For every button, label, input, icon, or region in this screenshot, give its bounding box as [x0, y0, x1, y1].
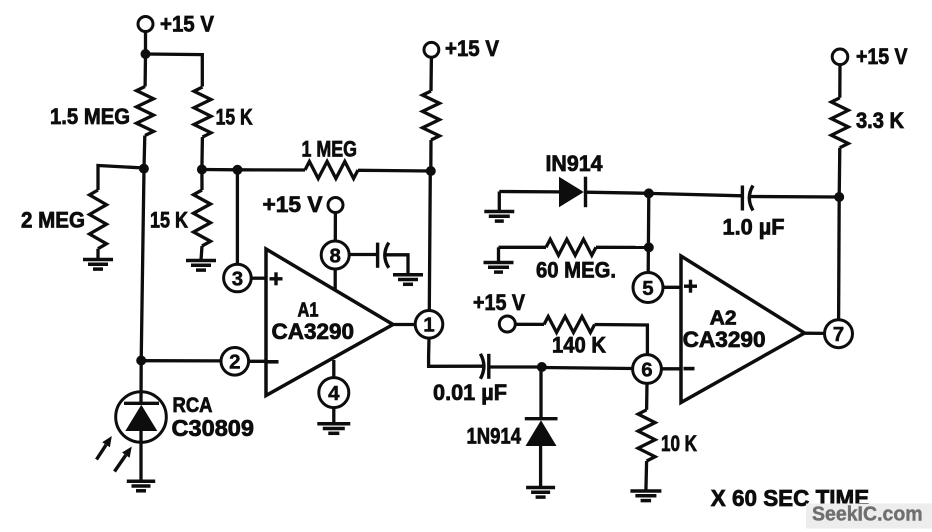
op-amp U1 A1 CA3290 triangle	[266, 249, 393, 396]
wire pin 1 down and right	[429, 338, 484, 366]
node junction 0.01uF/D2/pin6	[537, 362, 547, 372]
resistor R 3.3 K (vertical)	[838, 65, 842, 98]
node junction 1MEG/pull-up/output rail	[426, 166, 436, 176]
wire D1 to junction	[586, 192, 649, 193]
pin 2 circle	[221, 348, 249, 376]
wire cap to D2 junction	[489, 365, 542, 368]
ground at 60 MEG	[484, 261, 514, 265]
resistor R 1.5 MEG (vertical)	[143, 54, 147, 87]
svg-text:C30809: C30809	[172, 415, 255, 441]
ground at D1	[484, 210, 514, 214]
wire pin 3 to A1	[251, 277, 266, 280]
wire +15V terminal to junction	[144, 32, 147, 55]
wire pin 4 to ground	[332, 408, 335, 424]
resistor R 140 K (horizontal)	[515, 323, 544, 326]
resistor R 60 MEG (horizontal)	[499, 246, 547, 249]
svg-text:1.5 MEG: 1.5 MEG	[50, 104, 130, 129]
wire junction to 15K top	[146, 54, 203, 87]
ground below D2	[526, 486, 555, 490]
wire bypass cap to ground	[385, 255, 408, 275]
wire 15K junction to pin3 junction	[202, 168, 238, 172]
op-amp A1 minus input marker	[268, 360, 279, 364]
wire main left rail down	[141, 169, 144, 361]
op-amp A2 minus input marker	[684, 367, 695, 371]
svg-text:5: 5	[642, 277, 653, 300]
svg-text:10 K: 10 K	[661, 431, 697, 456]
resistor R 2 MEG (vertical)	[90, 190, 107, 249]
svg-text:SeekIC.com: SeekIC.com	[812, 504, 923, 526]
wire feedback rail down to pin 5	[647, 193, 651, 272]
svg-text:IN914: IN914	[546, 151, 604, 176]
resistor R 10 K (vertical)	[645, 383, 649, 409]
svg-text:CA3290: CA3290	[272, 319, 355, 344]
svg-text:4: 4	[328, 382, 340, 405]
wire junction down to pin 7	[837, 197, 841, 320]
svg-text:2 MEG: 2 MEG	[21, 208, 85, 233]
svg-text:15 K: 15 K	[216, 105, 253, 130]
node junction D1/feedback rail	[644, 188, 654, 198]
wire pin 5 to A2	[663, 286, 681, 289]
wire A1 apex to pin 1	[393, 323, 415, 326]
node junction 15K/15K	[197, 165, 207, 175]
resistor R 15K upper (vertical)	[194, 87, 211, 137]
resistor unlabeled pull-up (vertical)	[429, 57, 433, 91]
wire +15V to pin 8	[334, 213, 337, 242]
ground at pin-8 bypass cap	[393, 273, 423, 277]
wire rail down to pin 1	[429, 171, 430, 310]
svg-text:6: 6	[641, 358, 652, 381]
wire A1 lower edge to pin 4	[332, 360, 335, 378]
diode D2 1N914 triangle	[526, 420, 557, 446]
light arrow 2 into photodiode	[115, 455, 126, 471]
ground below lower 15K	[186, 259, 216, 263]
light arrow 1 into photodiode	[97, 445, 107, 460]
svg-text:2: 2	[229, 351, 240, 374]
power terminal +15V (top right)	[832, 49, 848, 65]
svg-text:7: 7	[833, 323, 844, 346]
diode D1 1N914 anode wire and ground	[499, 190, 559, 194]
wire junction to pin 2	[141, 359, 221, 362]
node junction 3.3K/1.0uF/pin7	[834, 192, 844, 202]
wire junction down to photodiode	[139, 361, 142, 404]
svg-text:RCA: RCA	[173, 394, 213, 417]
wire pin 2 to A1	[249, 360, 266, 363]
diode D1 1N914 triangle	[559, 177, 584, 208]
svg-text:15 K: 15 K	[150, 208, 188, 233]
wire A2 apex to pin 7	[805, 332, 825, 335]
wire junction to 1.0uF cap	[649, 193, 742, 195]
capacitor C 1.0 uF	[741, 186, 744, 211]
node junction pin3 branch	[233, 165, 243, 175]
ground below 2 MEG	[83, 258, 113, 262]
power terminal +15V (top left)	[138, 17, 153, 32]
watermark background	[806, 504, 932, 529]
node junction 1.5MEG/2MEG	[139, 164, 149, 174]
wire junction to pin 6	[542, 368, 633, 369]
svg-text:1N914: 1N914	[467, 424, 522, 449]
svg-text:+15 V: +15 V	[856, 44, 908, 69]
photodiode triangle	[125, 405, 157, 431]
wire 2MEG branch	[98, 166, 144, 191]
photodiode cathode bar	[124, 402, 159, 405]
svg-text:+15 V: +15 V	[445, 36, 499, 61]
svg-text:1: 1	[423, 314, 434, 337]
svg-text:140 K: 140 K	[552, 333, 606, 358]
wire down to pin 3	[236, 170, 239, 264]
op-amp U2 A2 CA3290 triangle	[681, 256, 805, 403]
svg-text:+15 V: +15 V	[263, 192, 323, 217]
power terminal +15V (middle)	[424, 42, 439, 57]
wire junction down to D2	[539, 367, 542, 419]
pin 1 circle	[415, 311, 443, 339]
power terminal +15V (140K)	[499, 316, 515, 332]
diode D1 1N914 cathode bar	[584, 177, 587, 208]
pin 3 circle	[224, 264, 252, 292]
svg-text:1 MEG: 1 MEG	[302, 137, 358, 162]
pin 7 circle	[825, 320, 853, 348]
ground below photodiode	[127, 479, 155, 483]
node junction below +15V (top left)	[141, 49, 151, 59]
wire 60MEG left to ground	[497, 247, 500, 262]
svg-text:60 MEG.: 60 MEG.	[536, 258, 616, 283]
wire 1.0uF cap to 3.3K junction	[750, 195, 839, 199]
power terminal +15V (pin 8)	[328, 198, 343, 213]
diode D2 1N914 cathode bar	[525, 417, 558, 420]
photodiode D3 RCA C30809 envelope	[116, 392, 167, 443]
pin 5 circle	[633, 273, 663, 303]
svg-text:+15 V: +15 V	[160, 12, 214, 37]
wire photodiode to ground	[139, 431, 142, 481]
svg-text:+15 V: +15 V	[473, 290, 525, 315]
resistor R 1 MEG (horizontal)	[238, 168, 306, 171]
wire D2 to ground	[539, 446, 542, 487]
pin 8 circle	[321, 241, 349, 269]
ground below 10K	[630, 489, 661, 493]
svg-text:3: 3	[232, 267, 243, 290]
svg-text:3.3 K: 3.3 K	[856, 108, 904, 133]
wire pin 8 down to A1 top edge	[334, 269, 337, 290]
op-amp A1 plus input marker	[270, 277, 283, 280]
pin 4 circle	[319, 378, 349, 408]
node junction 60MEG/feedback rail	[644, 242, 654, 252]
op-amp A2 plus input marker	[684, 285, 697, 288]
capacitor C 0.01 uF	[480, 354, 484, 379]
svg-text:8: 8	[329, 244, 340, 267]
wire pin 6 to A2	[661, 367, 681, 370]
pin 6 circle	[633, 355, 662, 384]
ground below pin 4	[317, 422, 350, 426]
node junction photodiode/pin2	[136, 356, 146, 366]
svg-text:0.01 µF: 0.01 µF	[433, 380, 507, 405]
wire pin 8 to bypass cap	[349, 253, 377, 256]
svg-text:CA3290: CA3290	[683, 327, 766, 352]
svg-text:1.0 µF: 1.0 µF	[723, 215, 785, 240]
resistor R 15K lower (vertical)	[200, 170, 203, 191]
capacitor bypass at pin 8	[376, 243, 379, 268]
